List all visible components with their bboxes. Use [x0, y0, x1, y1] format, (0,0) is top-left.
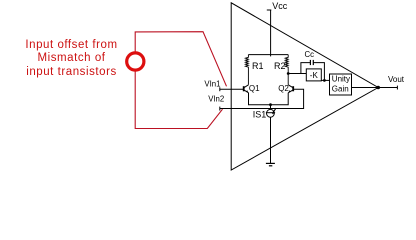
svg-text:input transistors: input transistors	[26, 66, 117, 78]
svg-text:Gain: Gain	[332, 85, 349, 94]
wire Unity Gain to apex	[352, 87, 379, 89]
svg-text:Mismatch of: Mismatch of	[37, 52, 105, 64]
resistor R1	[245, 55, 248, 85]
VIn2 input tick	[219, 107, 221, 111]
resistor R2	[285, 55, 288, 85]
wire IS1 to ground	[270, 117, 272, 163]
wire R2 node to -K input	[288, 73, 306, 75]
wire VIn2 to Q2 base	[220, 89, 304, 108]
svg-text:Vout: Vout	[388, 75, 405, 84]
block -K	[306, 69, 321, 81]
svg-text:R1: R1	[252, 61, 264, 71]
IS1 arrow head	[272, 111, 275, 114]
svg-text:VIn2: VIn2	[208, 95, 224, 104]
wire top rail R1-R2	[248, 54, 288, 56]
svg-text:-K: -K	[310, 71, 319, 80]
node emitter center	[269, 103, 272, 106]
svg-text:Input offset from: Input offset from	[25, 39, 117, 51]
svg-text:IS1: IS1	[253, 109, 267, 119]
node apex	[376, 86, 380, 90]
svg-text:VIn1: VIn1	[204, 79, 220, 88]
Vout tick	[396, 86, 398, 90]
svg-text:R2: R2	[274, 61, 286, 71]
node -K output	[323, 79, 326, 82]
Vcc terminal	[267, 9, 272, 11]
svg-text:Unity: Unity	[332, 75, 350, 84]
capacitor Cc plates	[310, 60, 313, 65]
wire VIn1 to Q1 base	[220, 88, 244, 90]
svg-text:Q2: Q2	[278, 84, 289, 93]
transistor Q2	[288, 85, 293, 93]
op-amp triangle	[231, 3, 378, 170]
Q1 emitter arrow	[246, 90, 248, 93]
wire rail to IS1	[270, 105, 272, 110]
red callout text "Input offset from Mismatch of input transistors"	[25, 39, 117, 78]
red callout bracket	[135, 32, 226, 129]
transistor Q1	[244, 85, 249, 93]
current source IS1	[266, 108, 276, 117]
wire output Vout	[378, 87, 397, 89]
wire emitter rail	[249, 93, 289, 105]
capacitor Cc feedback left wire	[301, 63, 310, 74]
block Unity Gain	[330, 74, 352, 95]
svg-text:Vcc: Vcc	[272, 1, 288, 11]
wire Vcc to rail	[270, 10, 272, 56]
VIn1 input tick	[219, 87, 221, 91]
Q2 emitter arrow	[288, 90, 290, 93]
red callout circle	[127, 53, 144, 70]
svg-text:Q1: Q1	[249, 84, 260, 93]
wire -K output to Unity Gain	[321, 79, 329, 81]
ground	[266, 163, 275, 165]
capacitor Cc feedback right wire	[314, 63, 325, 81]
node R2 collector	[287, 72, 290, 75]
svg-text:Cc: Cc	[305, 50, 315, 59]
